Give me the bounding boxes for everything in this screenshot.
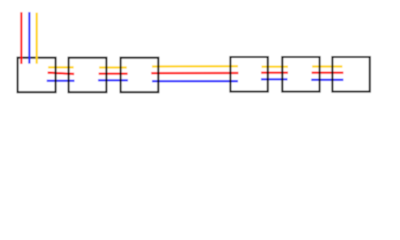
wire blue segment E (U5 to U6) [311,79,343,81]
wire red input (top feed into U1) [20,12,22,64]
wire blue segment A (U1 to U2) [47,80,75,82]
wire yellow input (top feed into U1) [36,13,38,64]
wire blue segment C (U3 to U4 long run) [152,80,238,82]
module U5 [282,57,319,92]
wire red segment E (U5 to U6) [312,72,344,74]
module U1 [18,58,56,92]
wire yellow segment B (U2 to U3) [99,66,127,68]
module U3 [121,58,159,92]
wire red segment D (U4 to U5) [261,72,288,74]
module U2 [69,58,107,92]
wire red segment C (U3 to U4 long run) [151,72,238,74]
wire yellow segment A (U1 to U2) [48,66,73,68]
wire blue segment D (U4 to U5) [261,78,288,80]
wire yellow segment C (U3 to U4 long run) [152,65,238,68]
wire yellow segment D (U4 to U5) [262,66,288,68]
wire red segment A (U1 to U2) [48,73,74,74]
module U6 [332,57,369,92]
wire red segment B (U2 to U3) [99,73,128,75]
wire blue input (top feed into U1) [28,12,30,63]
wire blue segment B (U2 to U3) [98,79,128,81]
module U4 [230,57,267,92]
wire yellow segment E (U5 to U6) [312,65,342,67]
